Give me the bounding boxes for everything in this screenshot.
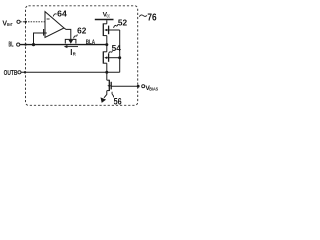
svg-text:BAT: BAT: [7, 22, 13, 27]
svg-text:52: 52: [118, 19, 128, 28]
svg-text:BLA: BLA: [86, 39, 96, 46]
leader for 52: [114, 24, 119, 28]
dashed block boundary 76: [26, 6, 138, 106]
wire op-amp output: [64, 28, 71, 41]
svg-text:56: 56: [114, 97, 122, 107]
op-amp plus input cross: [43, 29, 45, 36]
svg-text:BL: BL: [9, 39, 14, 48]
junction dot BL at boundary: [24, 43, 26, 45]
terminal BL circle: [17, 43, 20, 46]
svg-text:64: 64: [57, 9, 67, 18]
svg-text:62: 62: [77, 27, 87, 36]
terminal VBIAS circle: [142, 85, 145, 88]
junction node feedback tap: [32, 43, 35, 46]
wire VBAT lead to op-amp inverting input: [20, 21, 45, 23]
junction dot OUTB at boundary: [24, 71, 26, 73]
transistor Q54: [103, 51, 108, 63]
wire Q52 source to Q54 drain: [106, 36, 108, 52]
current source 62 staple: [65, 39, 76, 43]
wire gate bus vertical: [119, 30, 121, 72]
wire OUTB line to gate bus corner: [21, 71, 120, 73]
junction dot VBIAS at boundary: [137, 85, 140, 88]
leader for 54: [109, 51, 113, 54]
wire Q56 gate to VBIAS terminal: [111, 85, 137, 87]
terminal VBAT circle: [17, 20, 20, 23]
leader for 62: [74, 34, 78, 38]
arrowhead current into BL: [69, 40, 74, 44]
junction dot gate bus at Q54: [118, 56, 121, 59]
leader for 76: [139, 15, 147, 17]
wire Q52 gate to bus: [109, 29, 120, 31]
wire VCC to Q52 drain: [106, 20, 108, 24]
leader for 64: [53, 14, 56, 17]
wire BL line: [20, 44, 107, 46]
transistor Q56: [107, 80, 111, 91]
svg-text:R: R: [73, 51, 76, 56]
svg-text:CC: CC: [107, 13, 110, 18]
leader for 56: [112, 92, 114, 98]
ground arrowhead: [101, 97, 107, 103]
wire Q54 gate to bus: [109, 57, 120, 59]
junction dot VBAT at boundary: [24, 21, 26, 23]
transistor Q52: [103, 23, 108, 36]
junction dot BLA node: [105, 43, 108, 46]
op-amp U64 triangle: [45, 12, 64, 38]
wire Q56 source to ground: [104, 91, 107, 98]
power VCC bar: [95, 19, 114, 21]
current arrow IR shaft: [66, 46, 78, 48]
terminal OUTB circle: [18, 71, 21, 74]
op-amp minus input tick: [47, 18, 50, 20]
junction dot OUTB node: [105, 71, 108, 74]
svg-text:BIAS: BIAS: [149, 87, 158, 92]
wire Q54 source to Q56 drain: [106, 63, 108, 80]
svg-text:76: 76: [147, 12, 157, 23]
current arrow IR head: [64, 45, 68, 48]
wire feedback up to op-amp non-inverting input: [34, 33, 47, 45]
svg-text:OUTB: OUTB: [4, 68, 18, 77]
